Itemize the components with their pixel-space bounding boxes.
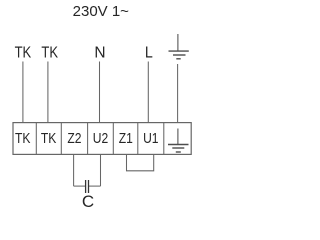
svg-text:TK: TK	[15, 45, 32, 62]
svg-text:L: L	[145, 45, 153, 62]
svg-text:U2: U2	[93, 130, 108, 146]
svg-text:C: C	[82, 192, 94, 209]
svg-text:N: N	[94, 45, 105, 62]
svg-text:TK: TK	[41, 45, 58, 62]
svg-text:TK: TK	[41, 130, 57, 146]
svg-text:Z2: Z2	[67, 130, 81, 146]
svg-text:Z1: Z1	[119, 130, 133, 146]
svg-text:230V 1~: 230V 1~	[73, 3, 130, 20]
svg-text:U1: U1	[143, 130, 158, 146]
svg-text:TK: TK	[15, 130, 31, 146]
